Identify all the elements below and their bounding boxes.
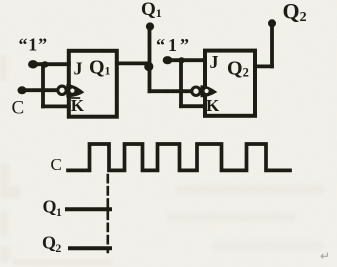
- dashed timing marker at first falling edge: [107, 175, 110, 252]
- wire Q1 to U2 clock: [150, 89, 192, 93]
- junction bump (U2 J wire): [178, 57, 185, 63]
- wire "1" down to K (U1): [41, 64, 45, 106]
- wire into K (U2): [181, 104, 205, 108]
- wire Q1 vertical riser: [148, 26, 152, 91]
- clock edge wedge (U1): [66, 84, 84, 97]
- waveform C clock: [68, 144, 290, 170]
- flip-flop U1 body: [69, 51, 117, 117]
- node Q1 terminal dot: [146, 22, 154, 30]
- clock inversion bubble (U2): [192, 87, 200, 95]
- wire into K (U1): [43, 105, 69, 109]
- wire Q2 vertical riser: [270, 24, 274, 67]
- wire C to clock (U1): [22, 88, 58, 92]
- wire "1" down to K (U2): [179, 60, 183, 106]
- wire U1 Q output: [117, 62, 150, 66]
- clock edge wedge (U2): [201, 85, 218, 97]
- flip-flop U2 body: [205, 51, 255, 116]
- waveform Q2 initial level: [70, 246, 110, 250]
- wire U2 Q output: [255, 65, 272, 69]
- waveform Q1 initial level: [67, 207, 110, 211]
- paper texture: [0, 0, 1, 1]
- junction bump (U1 J wire): [41, 61, 48, 67]
- node "1" terminal dot (U1): [28, 60, 38, 68]
- wire "1" to J (U2): [168, 58, 206, 62]
- node "1" terminal dot (U2): [163, 56, 173, 64]
- junction dot Q1 net: [144, 62, 153, 71]
- clock inversion bubble (U1): [58, 86, 66, 94]
- pin label K bar (U1): [70, 97, 79, 99]
- wire "1" to J (U1): [33, 62, 69, 66]
- node Q2 terminal dot: [268, 19, 276, 27]
- node C terminal dot: [18, 86, 27, 94]
